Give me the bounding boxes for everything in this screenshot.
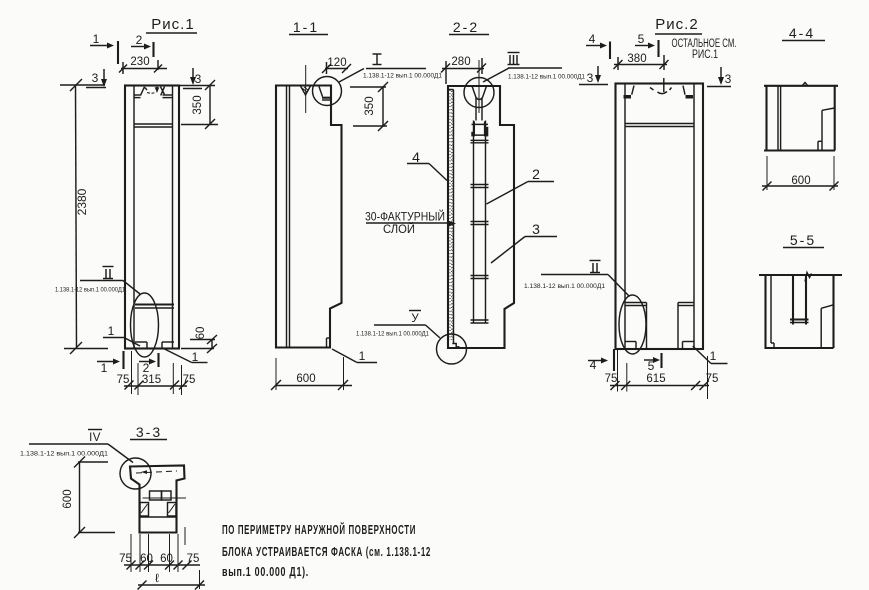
svg-text:75: 75 <box>605 373 618 385</box>
svg-text:315: 315 <box>142 374 161 386</box>
svg-text:600: 600 <box>62 489 74 508</box>
svg-text:2-2: 2-2 <box>453 19 479 35</box>
svg-text:IV: IV <box>89 432 101 444</box>
svg-text:75: 75 <box>706 373 719 385</box>
svg-text:1: 1 <box>93 32 100 46</box>
svg-text:3: 3 <box>195 72 202 86</box>
svg-text:1.138.1-12 вып.1 00.000Д1: 1.138.1-12 вып.1 00.000Д1 <box>363 74 443 80</box>
svg-text:350: 350 <box>192 95 204 114</box>
svg-text:3: 3 <box>725 72 732 86</box>
svg-text:У: У <box>411 313 419 325</box>
svg-text:230: 230 <box>130 56 149 68</box>
svg-text:350: 350 <box>364 96 376 115</box>
svg-text:280: 280 <box>451 56 470 68</box>
svg-text:60: 60 <box>195 327 207 340</box>
svg-text:600: 600 <box>791 175 810 187</box>
svg-text:615: 615 <box>646 373 665 385</box>
svg-text:75: 75 <box>117 374 130 386</box>
svg-text:60: 60 <box>140 553 153 565</box>
svg-text:2: 2 <box>532 166 540 182</box>
svg-text:1: 1 <box>359 349 366 363</box>
svg-text:1.138.1-12 вып.1 00.000Д1: 1.138.1-12 вып.1 00.000Д1 <box>356 332 430 338</box>
svg-text:1.138.1-12 вып.1 00.000Д1: 1.138.1-12 вып.1 00.000Д1 <box>524 284 606 290</box>
svg-text:4-4: 4-4 <box>789 25 815 41</box>
svg-text:1-1: 1-1 <box>293 19 319 35</box>
svg-text:5: 5 <box>638 32 645 46</box>
svg-text:2: 2 <box>136 33 143 47</box>
svg-text:120: 120 <box>327 57 346 69</box>
svg-text:75: 75 <box>187 553 200 565</box>
svg-text:60: 60 <box>160 553 173 565</box>
svg-text:3-3: 3-3 <box>136 424 162 440</box>
svg-text:5-5: 5-5 <box>790 232 816 248</box>
svg-text:3: 3 <box>587 71 594 85</box>
svg-text:вып.1 00.000 Д1).: вып.1 00.000 Д1). <box>222 565 309 579</box>
svg-text:Рис.2: Рис.2 <box>655 16 698 33</box>
svg-text:1.138.1-12 вып.1 00.000Д1: 1.138.1-12 вып.1 00.000Д1 <box>55 288 126 294</box>
svg-text:600: 600 <box>296 373 315 385</box>
svg-text:2380: 2380 <box>75 188 89 215</box>
svg-text:75: 75 <box>183 374 196 386</box>
svg-text:Рис.1: Рис.1 <box>151 16 194 33</box>
svg-text:75: 75 <box>119 553 132 565</box>
svg-text:1.138.1-12 вып.1 00.000Д1: 1.138.1-12 вып.1 00.000Д1 <box>20 451 108 458</box>
svg-text:2: 2 <box>143 361 150 375</box>
svg-text:РИС.1: РИС.1 <box>692 49 718 61</box>
svg-text:380: 380 <box>627 53 646 65</box>
svg-text:1: 1 <box>710 349 717 363</box>
svg-text:ℓ: ℓ <box>155 571 159 585</box>
svg-text:1: 1 <box>108 324 115 338</box>
svg-text:3: 3 <box>92 71 99 85</box>
svg-text:1: 1 <box>101 361 108 375</box>
svg-text:3: 3 <box>532 221 540 237</box>
svg-text:БЛОКА УСТРАИВАЕТСЯ ФАСКА (см.: БЛОКА УСТРАИВАЕТСЯ ФАСКА (см. 1.138.1-12 <box>222 545 431 559</box>
svg-text:4: 4 <box>412 149 420 165</box>
svg-text:ПО ПЕРИМЕТРУ НАРУЖНОЙ ПОВЕРХНО: ПО ПЕРИМЕТРУ НАРУЖНОЙ ПОВЕРХНОСТИ <box>222 522 416 537</box>
svg-text:4: 4 <box>589 32 596 46</box>
svg-text:1.138.1-12 вып.1 00.000Д1: 1.138.1-12 вып.1 00.000Д1 <box>508 75 586 81</box>
